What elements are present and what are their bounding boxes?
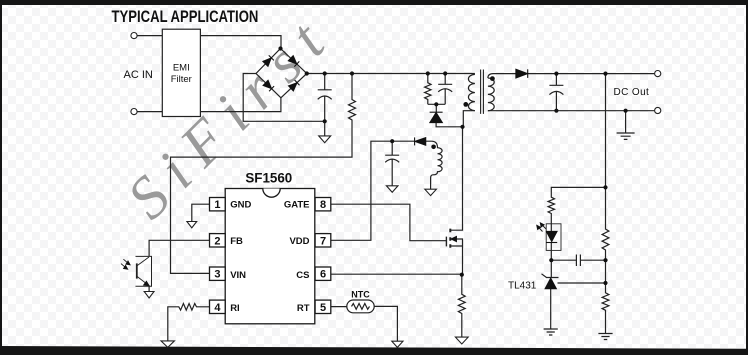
svg-text:SF1560: SF1560: [245, 170, 292, 185]
svg-text:FB: FB: [230, 236, 243, 247]
svg-text:6: 6: [320, 269, 326, 281]
svg-text:1: 1: [214, 199, 220, 211]
svg-text:5: 5: [320, 302, 326, 314]
svg-text:AC IN: AC IN: [124, 69, 153, 81]
svg-text:NTC: NTC: [351, 290, 370, 300]
svg-text:7: 7: [320, 235, 326, 247]
svg-text:GATE: GATE: [284, 200, 310, 211]
svg-text:8: 8: [320, 199, 326, 211]
svg-text:4: 4: [214, 302, 221, 314]
svg-text:Filter: Filter: [171, 74, 192, 85]
svg-text:RI: RI: [230, 303, 240, 314]
svg-text:VIN: VIN: [230, 270, 246, 281]
svg-text:DC Out: DC Out: [614, 87, 650, 98]
svg-text:2: 2: [214, 235, 220, 247]
svg-text:EMI: EMI: [173, 63, 190, 74]
svg-text:VDD: VDD: [289, 236, 309, 247]
svg-text:CS: CS: [296, 270, 309, 281]
svg-text:GND: GND: [230, 200, 251, 211]
svg-text:TYPICAL APPLICATION: TYPICAL APPLICATION: [112, 9, 259, 27]
svg-text:TL431: TL431: [508, 281, 537, 292]
svg-text:RT: RT: [297, 303, 310, 314]
svg-text:3: 3: [214, 269, 220, 281]
